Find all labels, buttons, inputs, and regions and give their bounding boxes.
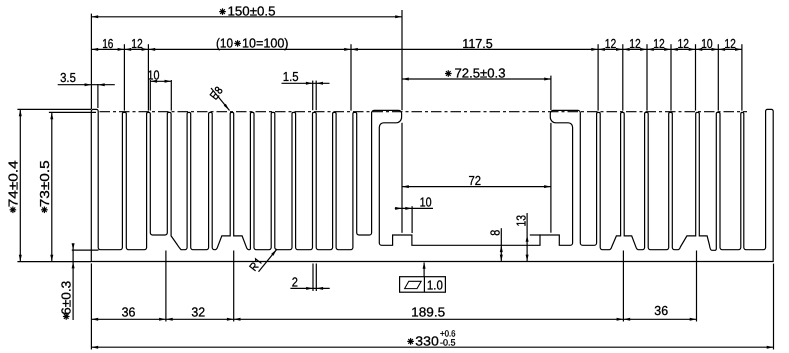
svg-text:10=100): 10=100) (242, 35, 289, 50)
svg-text:74±0.4: 74±0.4 (5, 160, 20, 207)
dim *150±0.5 overall top (91, 16, 402, 18)
svg-text:12: 12 (678, 36, 690, 51)
dim chain baseline y=49.4 (91, 48, 742, 50)
svg-text:330: 330 (415, 334, 439, 349)
flatness tolerance frame 1.0 (400, 277, 446, 293)
label E8 with leader (211, 88, 230, 111)
dim 1.5 fin tip thickness (282, 82, 330, 84)
dim 10 fin pitch top-left (150, 80, 171, 82)
extension line right lip tip lower (550, 123, 552, 233)
svg-text:(10: (10 (216, 35, 233, 50)
svg-text:1.0: 1.0 (427, 278, 443, 293)
chain extension lines (123, 44, 125, 110)
svg-text:10: 10 (701, 36, 713, 51)
bottom chain extension lines (90, 263, 92, 349)
svg-text:117.5: 117.5 (462, 36, 492, 51)
dim 10 lip tip to boss step (395, 207, 433, 209)
dim 3.5 first wall thickness (58, 84, 115, 86)
dim 2 fin root thickness (290, 287, 329, 289)
extension line fin-root level to left (72, 249, 99, 251)
svg-text:12: 12 (605, 36, 617, 51)
svg-text:12: 12 (131, 36, 143, 51)
svg-text:13: 13 (513, 215, 528, 227)
svg-text:73±0.5: 73±0.5 (37, 160, 52, 207)
svg-text:-0.5: -0.5 (440, 337, 456, 347)
extension line lip tip lower (401, 123, 403, 233)
svg-text:36: 36 (654, 303, 668, 318)
svg-text:8: 8 (487, 230, 502, 236)
svg-text:12: 12 (629, 36, 641, 51)
extension line bottom face to left (17, 261, 91, 263)
extension line fin1 top to left (17, 108, 91, 110)
flatness leader arrow to bottom face (423, 263, 425, 277)
svg-text:32: 32 (191, 304, 205, 319)
dim chain 36 32 189.5 36 baseline y=319.3 (91, 318, 696, 320)
svg-text:3.5: 3.5 (60, 70, 76, 85)
chain arrows (91, 48, 98, 51)
dim *6±0.3 base thickness (72, 243, 74, 320)
svg-text:72.5±0.3: 72.5±0.3 (455, 65, 506, 80)
svg-text:10: 10 (420, 194, 432, 209)
svg-text:72: 72 (469, 173, 482, 188)
svg-text:1.5: 1.5 (283, 69, 299, 84)
extension line lip tip upper (401, 10, 403, 110)
svg-text:6±0.3: 6±0.3 (59, 281, 74, 315)
extension line fin tip level to left (49, 111, 96, 113)
dim 72 between lip tips (402, 186, 551, 188)
svg-text:10: 10 (148, 67, 160, 82)
svg-text:2: 2 (292, 275, 298, 290)
svg-text:36: 36 (122, 304, 136, 319)
heatsink extrusion profile outline (91, 109, 773, 261)
label R1 with leader (259, 249, 278, 272)
extension line left profile edge (90, 14, 92, 109)
dim *72.5±0.3 channel opening (402, 78, 551, 80)
dim *73±0.5 fin height (51, 112, 53, 261)
dim 8 floor height (500, 228, 502, 261)
svg-text:150±0.5: 150±0.5 (228, 3, 276, 18)
svg-text:12: 12 (653, 36, 665, 51)
dim *330 +0.6/-0.5 overall width (91, 346, 773, 348)
extension line right lip tip upper (550, 76, 552, 110)
dim *74±0.4 overall height (19, 109, 21, 261)
svg-text:189.5: 189.5 (411, 304, 445, 319)
dim 13 boss height (526, 213, 528, 261)
centerline fin-tip plane (phantom line) (100, 111, 748, 113)
svg-text:16: 16 (102, 36, 113, 51)
svg-text:12: 12 (724, 36, 736, 51)
